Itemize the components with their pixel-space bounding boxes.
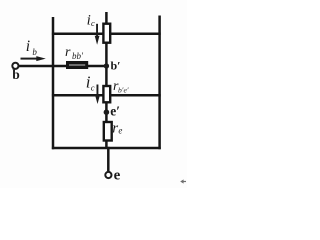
resistor r_b'e' (103, 86, 110, 102)
terminal e (open circle) (105, 172, 111, 178)
wire: top horizontal rail (collector) (52, 32, 161, 35)
node e' (junction dot) (104, 109, 110, 115)
svg-text:e′: e′ (110, 103, 120, 118)
svg-text:c: c (91, 18, 95, 28)
wire: emitter lead from bottom rail to terminal e (107, 147, 110, 171)
resistor (collector branch, unlabeled) (103, 24, 110, 43)
terminal b (open circle) (12, 63, 18, 69)
stray mark: small gray left arrow bottom-right (180, 179, 186, 183)
svg-text:bb′: bb′ (72, 51, 84, 61)
wire: center vertical branch (c to e') (105, 12, 108, 149)
svg-text:e: e (118, 126, 122, 136)
svg-text:b′: b′ (111, 59, 121, 73)
wire: left vertical rail (52, 17, 55, 149)
wire: bottom horizontal rail (emitter) (52, 147, 161, 150)
svg-text:e: e (114, 168, 121, 184)
svg-text:c: c (91, 83, 95, 93)
current arrow i_c top (points down) (95, 24, 100, 45)
wire: middle horizontal rail (52, 94, 161, 97)
resistor r_bb' (68, 63, 87, 68)
wire: right vertical rail (158, 16, 161, 150)
current arrow i_c lower (points down) (95, 85, 100, 105)
svg-text:i: i (26, 38, 30, 55)
wire: base lead from terminal b to node b' (19, 65, 106, 68)
svg-text:b: b (12, 67, 20, 82)
resistor r_e (104, 122, 112, 141)
svg-text:b′e′: b′e′ (118, 85, 129, 94)
svg-text:b: b (32, 47, 37, 57)
current arrow i_b (points right) (21, 56, 46, 61)
svg-text:r: r (65, 45, 71, 60)
svg-text:r: r (112, 120, 118, 136)
node b' (junction dot) (104, 63, 109, 68)
